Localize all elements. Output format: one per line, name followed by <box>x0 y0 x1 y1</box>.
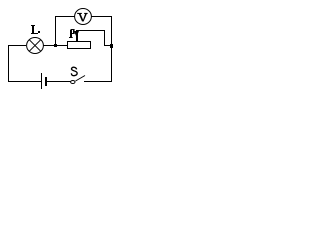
label L (drawn) <box>31 25 40 34</box>
label P (drawn) <box>69 29 75 38</box>
switch contact circle <box>71 81 75 84</box>
wire: lamp to rheostat <box>43 45 68 47</box>
switch lever <box>76 76 86 82</box>
rheostat slider stem <box>76 30 78 42</box>
label S (drawn) <box>71 67 77 75</box>
node B: junction dot (slider tap on right rail) <box>110 44 113 48</box>
wire: voltmeter left lead, down to tap node <box>56 17 76 46</box>
rheostat slider arrowhead <box>74 31 79 37</box>
wire: lamp left lead, left rail down, bottom-left rail <box>9 46 42 82</box>
voltmeter circle <box>75 9 92 25</box>
voltmeter letter V (drawn) <box>77 13 87 22</box>
wire: battery to switch <box>47 81 71 83</box>
battery long plate <box>41 73 43 89</box>
lamp X cross <box>29 40 41 52</box>
battery short thick plate <box>45 77 47 86</box>
resistor P box (rheostat) <box>68 42 91 49</box>
lamp circle <box>27 38 44 54</box>
node A: junction dot (voltmeter tap, left) <box>54 44 57 47</box>
wire: rheostat slider branch to right rail <box>77 31 112 46</box>
wire: voltmeter right lead, right rail down, bottom-right rail <box>84 17 112 82</box>
